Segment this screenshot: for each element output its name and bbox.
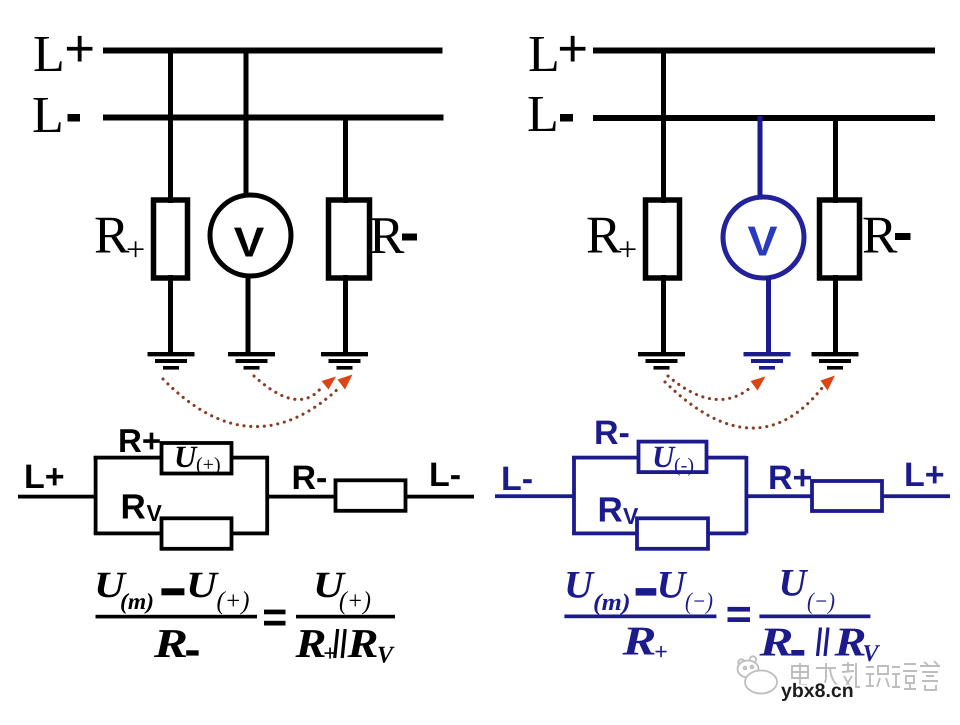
wire: L+ bus to voltmeter V1 [244, 48, 249, 197]
node: parallel branch left vertical (right equivalent) [572, 456, 576, 534]
label L- (right bus) [527, 86, 573, 143]
svg-text:R: R [862, 207, 898, 265]
wire: bottom branch right (left equivalent) [231, 532, 270, 536]
wire: L+ bus to resistor R+ [168, 48, 173, 203]
wire: top branch left (right equivalent) [572, 456, 639, 460]
node U(-) term (right formula numerator) [657, 564, 714, 615]
node R- term (right formula rhs denominator) [758, 619, 804, 665]
svg-text:L-: L- [429, 456, 461, 494]
svg-text:L: L [527, 86, 559, 143]
ground (left circuit, under R-) [321, 354, 368, 368]
svg-text:(−): (−) [685, 589, 713, 615]
fraction bar rhs (left formula) [296, 615, 395, 619]
arrowhead on arc (left upper) [322, 377, 337, 390]
svg-text:L: L [32, 87, 64, 144]
label RV (right equivalent) [598, 491, 640, 530]
svg-text:R: R [586, 207, 622, 265]
capacitor-box U(-) source element (right equivalent) [639, 442, 707, 473]
svg-text:U: U [657, 564, 688, 607]
svg-text:+: + [557, 18, 588, 79]
wire: R+ box to L+ (right equivalent) [882, 494, 950, 498]
equals sign (right formula) [728, 607, 751, 622]
resistor RV box (left equivalent) [162, 518, 232, 549]
equals sign (left formula) [264, 610, 286, 626]
wire: L+ bus to resistor R+ (right) [661, 48, 666, 203]
parallel operator (left formula) [335, 629, 346, 658]
svg-text:L: L [528, 26, 560, 83]
resistor R- box (left equivalent) [336, 480, 406, 511]
wire: L- bus to resistor R- (right) [833, 116, 838, 203]
wire: top branch right (left equivalent) [232, 456, 270, 460]
svg-text:V: V [234, 219, 265, 266]
node R- term (left formula denominator) [153, 620, 199, 666]
svg-text:R: R [369, 207, 405, 265]
bus L- right [593, 115, 935, 121]
svg-text:R: R [346, 620, 378, 666]
svg-text:ybx8.cn: ybx8.cn [781, 680, 854, 702]
node R+ term (left formula rhs denominator) [294, 620, 336, 667]
svg-text:U: U [174, 439, 198, 474]
svg-text:R-: R- [292, 459, 328, 497]
svg-text:+: + [618, 232, 637, 269]
voltmeter V2 (right circuit, navy) [723, 197, 804, 278]
dotted arc: R+ ground to R- ground (left) [163, 379, 340, 427]
svg-text:+: + [654, 640, 668, 666]
svg-text:R: R [121, 488, 146, 527]
wire: top branch right (right equivalent) [707, 456, 747, 460]
node RV term (left formula rhs denominator) [346, 620, 395, 669]
watermark text (Chinese, stylized gray glyph shapes) [792, 661, 940, 690]
node U(m) term (right formula numerator) [564, 564, 631, 617]
wire: middle to R+ box (right equivalent) [747, 494, 813, 498]
svg-text:L+: L+ [24, 458, 65, 496]
svg-text:R: R [94, 207, 130, 265]
svg-text:U: U [186, 565, 220, 606]
node: parallel branch right vertical [265, 456, 269, 534]
ground (right circuit, under R+) [638, 354, 685, 368]
resistor R- (right circuit) [820, 200, 860, 278]
svg-text:(+): (+) [339, 586, 371, 615]
dotted arc: R+ ground to V2 ground (right) [668, 376, 750, 400]
label R- (right circuit) [862, 207, 911, 265]
label U(+) value [174, 439, 221, 476]
svg-text:R: R [621, 618, 656, 664]
svg-text:(-): (-) [674, 455, 694, 477]
svg-text:V: V [377, 643, 395, 669]
svg-text:L+: L+ [904, 456, 945, 494]
wire: resistor R+ to ground (right) [661, 275, 666, 353]
wire: L- lead (right equivalent) [495, 494, 574, 498]
resistor RV box (right equivalent) [637, 518, 708, 549]
svg-text:L: L [33, 26, 65, 83]
svg-text:U: U [652, 439, 676, 474]
label R- (left circuit) [369, 207, 417, 265]
wire: resistor R- to ground [343, 275, 348, 353]
wire: bottom branch left (left equivalent) [94, 532, 163, 536]
svg-text:R+: R+ [768, 459, 812, 497]
arrowhead on arc (left lower) [338, 375, 353, 390]
svg-text:(+): (+) [196, 454, 221, 476]
wire: L- bus to resistor R- [343, 115, 348, 203]
dotted arc: V1 ground to R- ground (left) [254, 376, 321, 400]
ground (left circuit, under R+) [148, 354, 195, 368]
label R+ (right circuit) [586, 207, 637, 269]
fraction bar (right formula, lhs) [564, 615, 716, 619]
label L+ (right bus) [528, 18, 588, 83]
ground (right circuit, under R-) [812, 354, 859, 368]
fraction bar rhs (right formula) [759, 615, 870, 619]
svg-text:(+): (+) [217, 586, 250, 615]
arrowhead on arc (right upper) [751, 377, 766, 391]
wire: middle to R- box (left equivalent) [267, 495, 336, 499]
bus L+ left [103, 48, 443, 54]
ground (right circuit, under V2, navy) [744, 354, 791, 368]
dotted arc: R+ ground to R- ground (right) [665, 382, 822, 428]
wire: L- bus to voltmeter V2 (navy) [758, 116, 763, 198]
svg-text:(m): (m) [593, 590, 631, 616]
svg-text:R: R [598, 491, 623, 530]
svg-text:V: V [863, 641, 881, 667]
minus sign (right formula) [636, 588, 657, 596]
svg-text:R: R [294, 620, 326, 666]
svg-text:R: R [153, 620, 188, 666]
svg-text:V: V [748, 218, 778, 265]
svg-text:(−): (−) [807, 589, 835, 615]
node: parallel branch right vertical (right equivalent) [745, 456, 749, 534]
resistor R- (left circuit) [329, 200, 370, 278]
parallel operator (right formula) [818, 628, 829, 657]
svg-text:+: + [126, 232, 145, 269]
svg-text:U: U [564, 564, 595, 607]
wire: bottom branch left (right equivalent) [572, 532, 637, 536]
node U(m) term (left formula numerator) [94, 565, 154, 614]
label RV (left equivalent) [121, 488, 163, 527]
svg-text:U: U [779, 562, 809, 605]
svg-text:V: V [623, 503, 639, 529]
svg-text:R+: R+ [118, 422, 161, 459]
label U(-) value [652, 439, 694, 477]
bus L- left [103, 115, 444, 121]
resistor R+ box (right equivalent) [812, 481, 882, 511]
node U(+) term (left formula rhs numerator) [313, 565, 371, 615]
watermark url ybx8.cn [781, 680, 854, 702]
svg-text:(m): (m) [120, 589, 154, 614]
arrowhead on arc (right lower) [821, 376, 836, 391]
svg-text:R: R [758, 619, 793, 665]
resistor R+ (left circuit) [154, 200, 188, 278]
fraction bar (left formula, lhs) [96, 615, 258, 619]
label L+ (left bus) [33, 18, 95, 83]
svg-text:V: V [147, 500, 163, 526]
svg-text:L-: L- [501, 460, 533, 498]
capacitor-box U(+) source element [162, 443, 232, 474]
label L- (left bus) [32, 87, 80, 144]
wire: resistor R- to ground (right) [833, 275, 838, 353]
node: parallel branch left vertical [94, 456, 98, 534]
wire: bottom branch right (right equivalent) [708, 532, 747, 536]
svg-text:R-: R- [594, 414, 630, 452]
minus sign (left formula) [161, 588, 184, 595]
node U(+) term (left formula numerator) [186, 565, 250, 615]
svg-text:+: + [64, 18, 95, 79]
watermark logo (panda outline) [738, 656, 778, 693]
wire: top branch left (left equivalent) [94, 456, 162, 460]
resistor R+ (right circuit) [646, 200, 680, 278]
wire: L+ lead (left equivalent) [18, 495, 96, 499]
bus L+ right [593, 48, 935, 54]
ground (left circuit, under V1) [228, 354, 275, 368]
wire: voltmeter V1 to ground [246, 274, 251, 353]
wire: R- box to L- (left equivalent) [406, 495, 475, 499]
label R+ (left circuit) [94, 207, 145, 269]
wire: resistor R+ to ground [168, 275, 173, 353]
voltmeter V1 (left circuit) [210, 195, 291, 276]
wire: voltmeter V2 to ground (navy) [766, 276, 771, 353]
